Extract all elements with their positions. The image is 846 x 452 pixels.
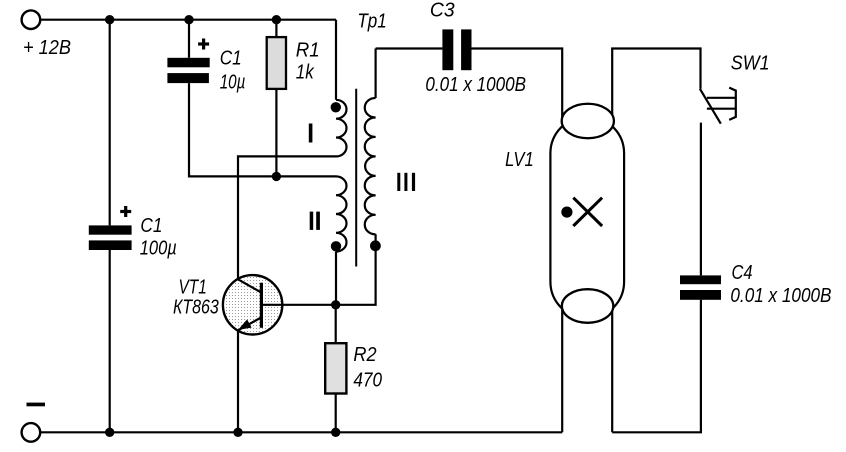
terminal +12V [22,10,41,29]
switch blade [700,89,721,124]
svg-text:10µ: 10µ [220,72,246,94]
switch bracket [729,88,736,120]
transformer winding II [336,176,347,251]
wire winding I bottom to collector [238,156,336,279]
label minus [27,403,46,407]
wire SW1 to C4 [700,123,702,276]
wire to R1 top [275,20,277,37]
emitter diagonal VT1 [238,317,261,330]
node bottom C1-100u [105,428,114,437]
transformer winding I [336,100,347,157]
wire lamp bottom left [561,302,563,432]
transformer winding III [365,98,376,234]
wire winding III bottom [336,234,376,304]
node top rail to C1-100u [105,15,114,24]
emitter arrow VT1 [239,320,251,329]
svg-text:LV1: LV1 [505,149,534,171]
wire emitter [237,330,239,432]
resistor R2 [325,343,346,393]
svg-text:1k: 1k [296,61,315,83]
wire R1 bottom [275,89,277,176]
capacitor C1 100u [89,206,132,250]
node bottom emitter [233,428,242,437]
wire C3 to lamp left [472,49,563,120]
wire top rail to winding I [335,20,337,100]
switch prongs [707,98,736,109]
wire to C1-100u top [109,20,111,226]
node R1 bottom junction [272,172,281,181]
svg-text:R1: R1 [296,40,320,62]
capacitor C1 10u [167,39,209,84]
label I [309,124,313,143]
lamp X symbol [573,198,602,226]
svg-text:C3: C3 [430,0,455,22]
svg-text:+ 12В: + 12В [23,37,71,59]
svg-text:C1: C1 [220,48,242,70]
wire winding III to C3 [376,47,443,49]
lamp bottom electrode [562,289,613,323]
phasing dot winding III [370,240,381,251]
svg-text:VT1: VT1 [179,277,207,299]
base bar VT1 [260,283,263,328]
svg-text:470: 470 [353,369,382,391]
svg-text:0.01 x 1000В: 0.01 x 1000В [425,74,526,96]
collector diagonal VT1 [238,279,261,292]
node bottom R2 [331,428,340,437]
wire base junction to R2 [335,305,337,343]
transformer core [355,89,357,267]
wire lamp top right rail [612,49,700,120]
svg-text:C1: C1 [140,215,162,237]
wire C1-10u bottom [189,83,336,176]
phasing dot winding I [331,102,341,112]
resistor R1 [267,37,286,89]
wire winding III top [375,49,377,99]
phasing dot winding II [331,241,341,251]
capacitor C4 [680,275,721,299]
svg-text:КТ863: КТ863 [173,297,219,319]
lamp top electrode [562,104,614,139]
label III [397,173,415,191]
svg-text:Tp1: Tp1 [357,11,386,33]
svg-text:C4: C4 [732,262,753,284]
wire lamp bottom right [611,302,613,432]
svg-text:R2: R2 [353,344,376,366]
svg-text:0.01 x 1000В: 0.01 x 1000В [730,285,831,307]
wire C4 bottom [612,300,701,433]
wire winding II bottom [335,252,337,305]
node base junction [331,300,340,309]
svg-text:SW1: SW1 [731,53,770,75]
wire bottom rail [40,431,562,433]
node top rail to C1-10u [184,15,193,24]
label II [310,212,320,230]
wire to C1-10u top [188,20,190,58]
svg-text:100µ: 100µ [140,238,177,260]
lamp dot [561,207,572,218]
lamp LV1 envelope [550,117,624,319]
wire R2 bottom [335,394,337,433]
wire C1-100u bottom [109,250,111,432]
node top rail to R1 [272,15,281,24]
wire top rail [41,19,337,21]
wire base lead [261,304,335,306]
terminal minus [22,423,41,442]
capacitor C3 [442,29,471,70]
transistor VT1 [223,275,282,334]
